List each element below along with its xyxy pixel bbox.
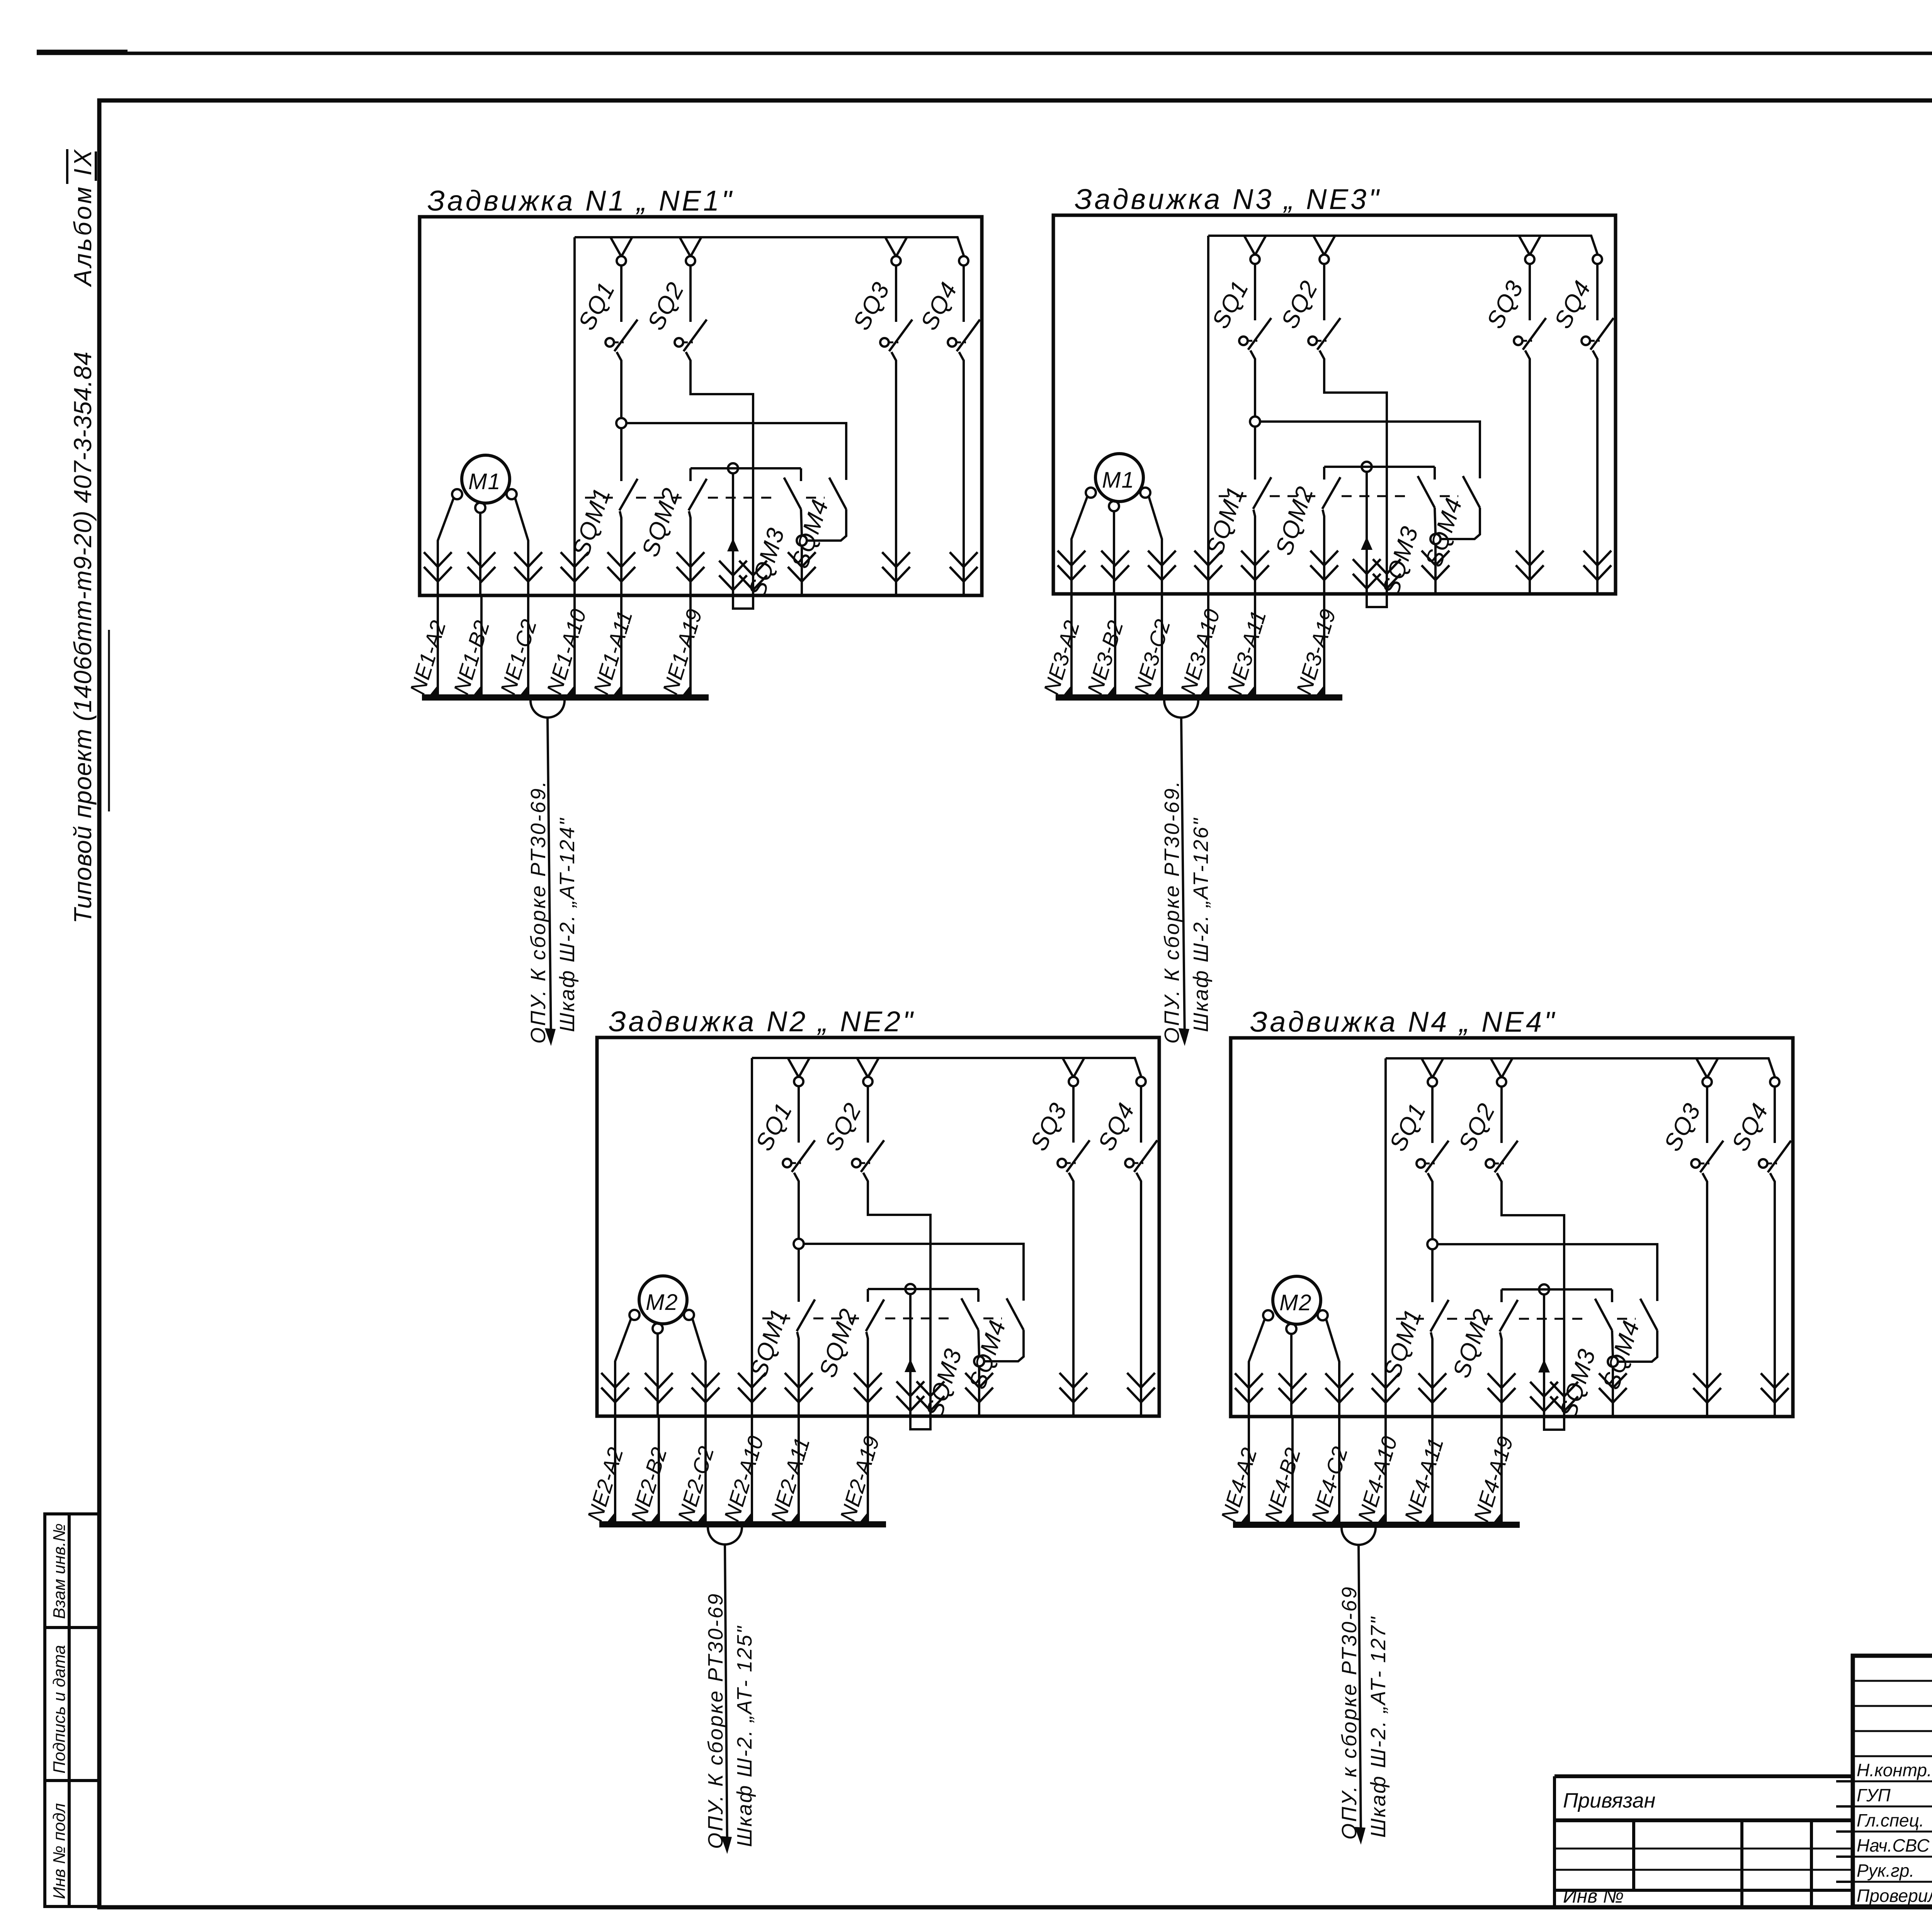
svg-text:ОПУ. к сборке РТ30-69: ОПУ. к сборке РТ30-69	[1338, 1585, 1361, 1840]
svg-text:Задвижка N1 „ NE1": Задвижка N1 „ NE1"	[427, 185, 734, 217]
svg-text:Привязан: Привязан	[1563, 1789, 1655, 1812]
svg-text:ГУП: ГУП	[1857, 1785, 1891, 1805]
svg-text:ОПУ. К сборке РТ30-69.: ОПУ. К сборке РТ30-69.	[527, 780, 550, 1044]
svg-text:Типовой проект (1406бтт-т9-2: Типовой проект (1406бтт-т9-20) 407-3-354…	[69, 352, 97, 923]
svg-text:М2: М2	[1279, 1290, 1312, 1315]
svg-text:ОПУ. К сборке РТ30-69: ОПУ. К сборке РТ30-69	[704, 1592, 727, 1849]
svg-text:Шкаф Ш-2. „АТ-126": Шкаф Ш-2. „АТ-126"	[1189, 817, 1213, 1032]
svg-text:Задвижка N4 „ NE4": Задвижка N4 „ NE4"	[1250, 1006, 1556, 1038]
svg-text:Задвижка N3 „ NE3": Задвижка N3 „ NE3"	[1075, 183, 1381, 215]
svg-text:Шкаф Ш-2. „АТ- 127": Шкаф Ш-2. „АТ- 127"	[1367, 1616, 1390, 1838]
svg-text:М1: М1	[468, 469, 501, 494]
svg-text:Взам инв.№: Взам инв.№	[50, 1523, 69, 1619]
svg-text:Инв №: Инв №	[1563, 1885, 1624, 1907]
svg-text:Подпись и дата: Подпись и дата	[50, 1645, 69, 1774]
svg-text:Шкаф Ш-2. „АТ-124": Шкаф Ш-2. „АТ-124"	[556, 817, 579, 1032]
svg-text:Задвижка N2 „ NE2": Задвижка N2 „ NE2"	[609, 1005, 915, 1037]
svg-text:М1: М1	[1102, 468, 1135, 493]
svg-text:Шкаф Ш-2. „АТ- 125": Шкаф Ш-2. „АТ- 125"	[733, 1625, 756, 1847]
svg-text:Нач.СВС: Нач.СВС	[1857, 1835, 1930, 1855]
svg-text:Проверил: Проверил	[1857, 1886, 1932, 1906]
svg-text:Инв № подл: Инв № подл	[50, 1803, 69, 1899]
svg-text:Н.контр.: Н.контр.	[1857, 1760, 1932, 1780]
svg-text:Рук.гр.: Рук.гр.	[1857, 1861, 1914, 1881]
svg-text:Альбом IХ: Альбом IХ	[69, 149, 97, 287]
svg-text:Гл.спец.: Гл.спец.	[1857, 1810, 1924, 1830]
svg-text:ОПУ. К сборке РТ30-69.: ОПУ. К сборке РТ30-69.	[1160, 780, 1184, 1044]
svg-text:М2: М2	[646, 1290, 679, 1315]
